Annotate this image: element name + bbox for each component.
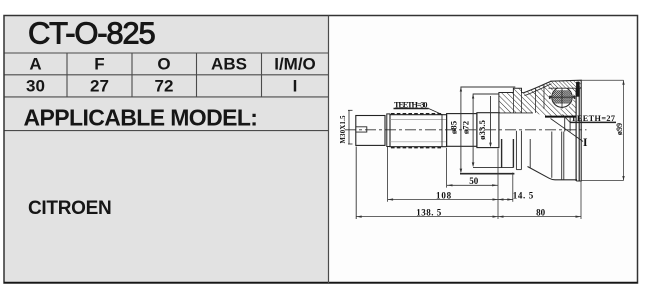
svg-text:50: 50 bbox=[469, 176, 479, 186]
table grid lines bbox=[4, 53, 329, 131]
svg-text:14. 5: 14. 5 bbox=[513, 190, 534, 200]
svg-text:30: 30 bbox=[26, 77, 45, 96]
svg-text:80: 80 bbox=[536, 208, 546, 218]
svg-text:ø85: ø85 bbox=[448, 120, 458, 134]
extension line housing face (80) bbox=[580, 181, 582, 219]
o33.5 witness line bbox=[489, 96, 492, 147]
centerline bbox=[345, 129, 587, 131]
cage cutout and ball bbox=[550, 86, 574, 109]
applicable model row bbox=[24, 105, 258, 131]
svg-text:A: A bbox=[29, 55, 41, 74]
extension line left (138.5) bbox=[355, 147, 357, 220]
housing profile bbox=[499, 80, 581, 181]
o99 witness lines bbox=[581, 80, 625, 180]
svg-text:138. 5: 138. 5 bbox=[416, 208, 442, 218]
citroen label bbox=[28, 198, 111, 219]
dimension 80 bbox=[498, 208, 581, 218]
housing top wall band redraw bbox=[549, 81, 582, 89]
extension line boot groove (shared) bbox=[497, 149, 499, 220]
header row A F O ABS I/M/O bbox=[29, 55, 315, 74]
dimension 14.5 bbox=[498, 190, 534, 200]
cage section wings bbox=[549, 96, 575, 100]
title CT-O-825 bbox=[28, 16, 155, 51]
svg-text:ø33.5: ø33.5 bbox=[477, 120, 487, 140]
svg-text:O: O bbox=[157, 55, 170, 74]
dimension 138.5 bbox=[356, 208, 498, 218]
dimension 50 bbox=[447, 176, 498, 186]
spline bore dark band bbox=[576, 82, 580, 97]
boot seat cylinder (o85/o72) bbox=[447, 114, 477, 147]
boot groove cylinder (o33.5) bbox=[477, 113, 499, 148]
svg-text:I/M/O: I/M/O bbox=[274, 55, 316, 74]
boot and housing section hatch bbox=[499, 80, 581, 116]
TEETH=27 label with leader bbox=[563, 114, 617, 123]
svg-text:CT-O-825: CT-O-825 bbox=[28, 16, 155, 51]
M30X1.5 label bbox=[340, 115, 347, 144]
svg-text:72: 72 bbox=[155, 77, 174, 96]
svg-text:27: 27 bbox=[90, 77, 109, 96]
dimension 108 bbox=[388, 190, 498, 200]
svg-text:F: F bbox=[94, 55, 104, 74]
svg-text:I: I bbox=[293, 77, 298, 96]
snap ring groove label I with leader bbox=[551, 119, 589, 150]
value row 30 27 72 I bbox=[26, 77, 297, 96]
svg-text:ø72: ø72 bbox=[461, 120, 471, 134]
shaft collar bbox=[387, 114, 390, 147]
svg-text:I: I bbox=[583, 137, 588, 149]
svg-text:APPLICABLE MODEL:: APPLICABLE MODEL: bbox=[24, 105, 258, 131]
boot top clamp edges below hatch (verticals) bbox=[513, 93, 521, 113]
extension line boot clamp (14.5) bbox=[512, 173, 514, 202]
svg-text:ø99: ø99 bbox=[615, 123, 624, 135]
threaded stub M30X1.5 bbox=[356, 116, 385, 146]
inner race lower edge bbox=[545, 116, 576, 118]
svg-text:ABS: ABS bbox=[211, 55, 247, 74]
svg-text:CITROEN: CITROEN bbox=[28, 198, 111, 219]
svg-text:108: 108 bbox=[436, 190, 452, 200]
splined shaft TEETH=30 bbox=[390, 114, 447, 148]
boot bottom exterior (bellows lines) bbox=[460, 131, 530, 174]
TEETH=30 label with leader bbox=[394, 100, 443, 114]
svg-text:M30X1.5: M30X1.5 bbox=[340, 115, 347, 144]
extension line shaft end (50) bbox=[446, 148, 448, 188]
o85 witness line bbox=[460, 87, 516, 173]
extension line collar (108) bbox=[387, 147, 389, 202]
M30X1.5 dimension line bbox=[348, 110, 353, 144]
o72 witness line bbox=[472, 94, 500, 167]
